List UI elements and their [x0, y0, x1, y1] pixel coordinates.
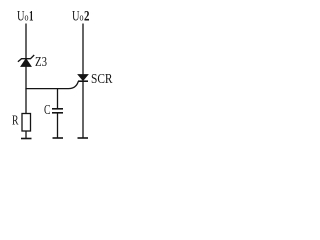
SCR cathode bar — [78, 80, 88, 82]
zener diode Z3 cathode bar — [18, 55, 34, 62]
resistor R body — [22, 114, 31, 132]
terminal bar below C — [53, 137, 64, 139]
node Uo1 label — [17, 9, 34, 25]
svg-text:o: o — [25, 13, 29, 24]
terminal bar below SCR — [78, 137, 89, 139]
svg-text:Z3: Z3 — [35, 55, 47, 70]
svg-text:1: 1 — [29, 9, 34, 25]
wire resistor to terminal — [25, 131, 27, 139]
svg-text:C: C — [44, 103, 51, 118]
svg-text:o: o — [80, 13, 84, 24]
capacitor C bottom plate — [52, 112, 63, 114]
svg-text:U: U — [17, 9, 25, 25]
terminal bar below R — [21, 138, 32, 140]
wire Uo2 to SCR anode — [82, 24, 84, 75]
svg-text:SCR: SCR — [91, 72, 113, 87]
wire SCR cathode to terminal — [82, 81, 84, 138]
SCR triangle — [78, 75, 88, 81]
wire capacitor drop — [57, 89, 59, 109]
wire horizontal gate bus — [25, 81, 78, 88]
wire Uo1 to zener — [25, 24, 27, 59]
zener diode Z3 triangle — [21, 59, 31, 67]
svg-text:U: U — [72, 9, 80, 25]
wire capacitor to terminal — [57, 113, 59, 138]
node Uo2 label — [72, 9, 90, 25]
wire zener to resistor — [25, 66, 27, 114]
svg-text:2: 2 — [84, 9, 90, 25]
capacitor C top plate — [52, 108, 63, 110]
svg-text:R: R — [12, 114, 19, 129]
